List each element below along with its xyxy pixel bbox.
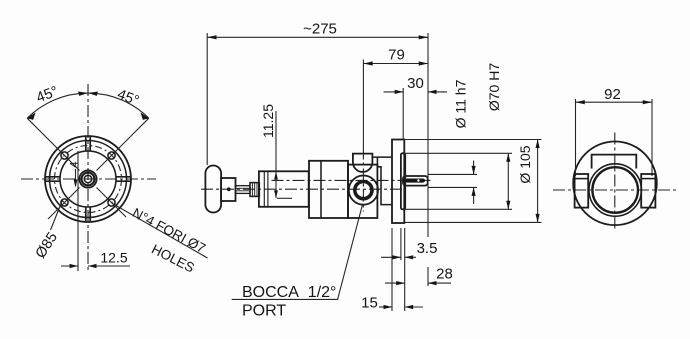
shaft pin [405,179,425,183]
proj line shaft top [428,173,477,175]
dimension 11.25 line [275,111,277,198]
dimension ~275 [207,36,428,38]
arc arrow top-left of centerline [78,92,88,96]
diagonal centerline upper-right [97,118,149,170]
svg-text:79: 79 [388,47,405,64]
outer circle [573,142,657,226]
leader BOCCA PORT [232,205,363,300]
svg-text:30: 30 [407,75,424,92]
port vertical centerline [362,148,364,212]
leader line diameter 85 [51,200,63,230]
left tab [575,174,589,208]
dimension 92 [576,101,653,103]
diagonal centerline lower-left [48,188,80,220]
hub circle outer [79,170,96,187]
flange inner circle [60,151,116,207]
flange plate [392,140,404,224]
svg-text:92: 92 [604,86,621,103]
bolt circle (dash-dot) [55,146,122,213]
arc arrow top-right of centerline [88,92,98,96]
svg-text:15: 15 [361,295,378,312]
port circle inner [355,182,372,199]
bolt hole top-left [61,152,68,159]
dimension 12.5 [61,265,78,267]
hub dot [227,187,231,191]
inner ring [589,164,641,216]
port circle outer [349,176,378,205]
slot S [86,207,90,222]
main axis centerline [201,188,405,190]
leader line N4 FORI [113,204,208,259]
flange spigot [401,153,405,209]
hub circle inner [84,175,91,182]
stem [236,186,251,194]
proj line spigot bottom [405,208,512,210]
dimension 15 [379,306,392,308]
svg-text:28: 28 [436,266,453,283]
svg-text:BOCCA 1/2°: BOCCA 1/2° [242,284,336,301]
flange second circle [50,141,127,218]
svg-text:12.5: 12.5 [100,250,127,266]
svg-text:4: 4 [69,161,81,167]
ext line shaft tip [427,33,429,237]
dimension 30 [384,91,404,93]
arrow for 4 [75,169,77,186]
body B [348,165,377,218]
vertical centerline [87,84,89,272]
svg-text:3.5: 3.5 [417,240,438,257]
extension line left of center [77,151,79,271]
block A [309,161,348,218]
top boss rectangle [592,155,637,169]
horizontal centerline [21,178,156,180]
arc arrow right end [141,112,149,120]
line inside cylinder lower [277,197,292,199]
slot W [46,177,61,181]
vertical centerline [614,133,616,231]
bore circle [592,167,638,213]
ext lines below flange [391,228,393,311]
proj line spigot top [405,152,512,154]
svg-text:Ø70 H7: Ø70 H7 [486,63,502,111]
bolt hole bottom-left [61,199,68,206]
diagonal centerline upper-left [27,118,79,170]
dome boss [353,154,373,172]
svg-text:11.25: 11.25 [260,104,276,138]
ext line flange face [402,88,404,140]
arc arrow left end [27,112,35,120]
step detail right of body [377,157,392,205]
45 degree arc [27,93,149,118]
slot N [86,137,90,152]
right tab [641,174,655,208]
diagonal centerline lower-right [97,188,127,218]
horizontal centerline [553,189,677,191]
dimension 28 [385,282,405,284]
dimension 3.5 [381,256,401,258]
flange outer circle [45,136,131,222]
ext line port axis up [362,60,364,148]
svg-text:Ø 105: Ø 105 [517,145,533,183]
knurl [250,183,259,197]
proj line shaft bottom [428,186,477,188]
bolt hole top-right [108,152,115,159]
bolt hole bottom-right [108,199,115,206]
svg-text:~275: ~275 [303,21,337,38]
proj line flange top [404,139,541,141]
cylinder [259,171,309,207]
shaft axis centerline [272,179,432,181]
knob [205,166,221,213]
dimension 79 [363,63,428,65]
dimension O105 [537,140,539,223]
dimension O11 h7 [473,161,475,175]
hub circle mid [82,173,95,186]
proj line flange bottom [404,221,541,223]
svg-text:PORT: PORT [242,303,286,320]
shaft [403,176,428,186]
ext lines 92 [575,99,577,176]
knob hub [221,178,235,201]
slot E [116,177,131,181]
dimension O70 H7 [507,153,509,209]
neck line to flange [372,156,392,158]
svg-text:Ø 11 h7: Ø 11 h7 [453,79,469,128]
ext line knob top [206,33,208,165]
